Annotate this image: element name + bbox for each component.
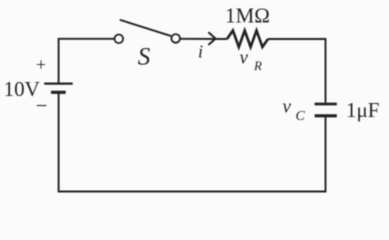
svg-text:+: + — [36, 55, 46, 75]
switch S left contact — [115, 35, 124, 44]
wire bottom-left up to battery — [58, 94, 60, 193]
current arrowhead i — [209, 33, 216, 45]
wire resistor to top-right corner and down — [268, 39, 326, 102]
svg-text:S: S — [138, 44, 151, 71]
svg-text:v: v — [283, 96, 292, 117]
capacitor C top plate — [315, 103, 337, 106]
svg-text:10V: 10V — [4, 77, 40, 101]
wire top-left: battery up to switch — [59, 39, 115, 83]
capacitor C bottom plate — [315, 114, 337, 117]
svg-text:−: − — [36, 94, 48, 118]
svg-text:R: R — [253, 58, 262, 73]
battery negative plate (short thick) — [51, 91, 66, 94]
svg-text:1μF: 1μF — [346, 98, 379, 122]
wire capacitor down to bottom-right corner and bottom wire — [59, 117, 326, 191]
wire switch to resistor — [180, 38, 227, 40]
switch S blade — [121, 20, 171, 36]
resistor R 1M ohm zigzag — [227, 31, 268, 48]
svg-text:i: i — [198, 42, 203, 62]
switch S right contact — [171, 34, 180, 43]
svg-text:C: C — [296, 109, 306, 124]
svg-text:1MΩ: 1MΩ — [225, 3, 270, 27]
svg-text:v: v — [240, 47, 249, 68]
battery positive plate (long) — [44, 82, 72, 84]
